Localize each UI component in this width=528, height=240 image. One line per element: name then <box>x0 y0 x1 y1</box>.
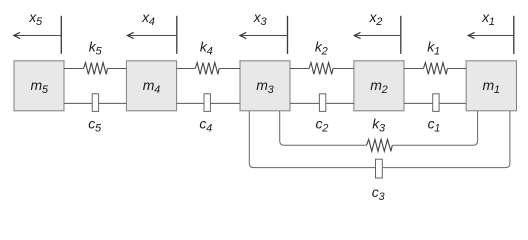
svg-text:k2: k2 <box>315 39 328 58</box>
svg-text:k5: k5 <box>89 39 103 58</box>
spring k2 <box>290 39 354 75</box>
displacement arrow x1 <box>468 9 514 54</box>
mass m1 <box>466 61 516 111</box>
svg-text:c1: c1 <box>428 115 441 134</box>
svg-text:x4: x4 <box>141 9 155 28</box>
damper c1 <box>404 94 466 135</box>
displacement arrow x5 <box>14 9 62 54</box>
damper c5 <box>64 94 126 135</box>
svg-text:c4: c4 <box>199 115 212 134</box>
svg-text:k4: k4 <box>200 39 213 58</box>
displacement arrow x4 <box>128 9 177 54</box>
svg-text:x3: x3 <box>253 9 268 28</box>
svg-text:x2: x2 <box>368 9 382 28</box>
spring k3 <box>280 111 478 151</box>
mass m2 <box>354 61 404 111</box>
mass m4 <box>126 61 176 111</box>
svg-text:k1: k1 <box>427 39 440 58</box>
spring k4 <box>177 39 240 75</box>
damper c2 <box>290 94 354 135</box>
svg-text:x5: x5 <box>28 9 43 28</box>
svg-text:x1: x1 <box>481 9 495 28</box>
damper c3 <box>249 111 510 203</box>
mass m3 <box>240 61 290 111</box>
svg-text:c5: c5 <box>88 115 102 134</box>
svg-text:k3: k3 <box>372 115 386 134</box>
displacement arrow x3 <box>240 9 288 54</box>
damper c4 <box>177 94 240 135</box>
svg-text:c2: c2 <box>315 115 328 134</box>
svg-text:c3: c3 <box>372 184 386 203</box>
spring k1 <box>404 39 466 75</box>
spring k5 <box>64 39 126 75</box>
displacement arrow x2 <box>354 9 401 54</box>
mass m5 <box>14 61 64 111</box>
